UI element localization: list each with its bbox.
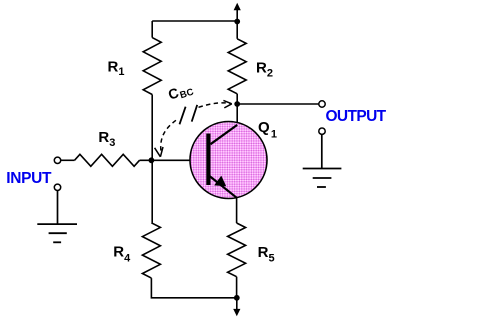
svg-text:R3: R3 — [98, 129, 115, 149]
svg-text:Q1: Q1 — [258, 119, 277, 140]
svg-text:R2: R2 — [256, 59, 273, 79]
svg-text:OUTPUT: OUTPUT — [326, 108, 387, 125]
svg-text:R5: R5 — [258, 244, 275, 265]
svg-text:R4: R4 — [113, 244, 131, 265]
svg-text:R1: R1 — [108, 58, 125, 78]
svg-text:CBC: CBC — [166, 80, 195, 104]
svg-text:INPUT: INPUT — [6, 170, 52, 187]
